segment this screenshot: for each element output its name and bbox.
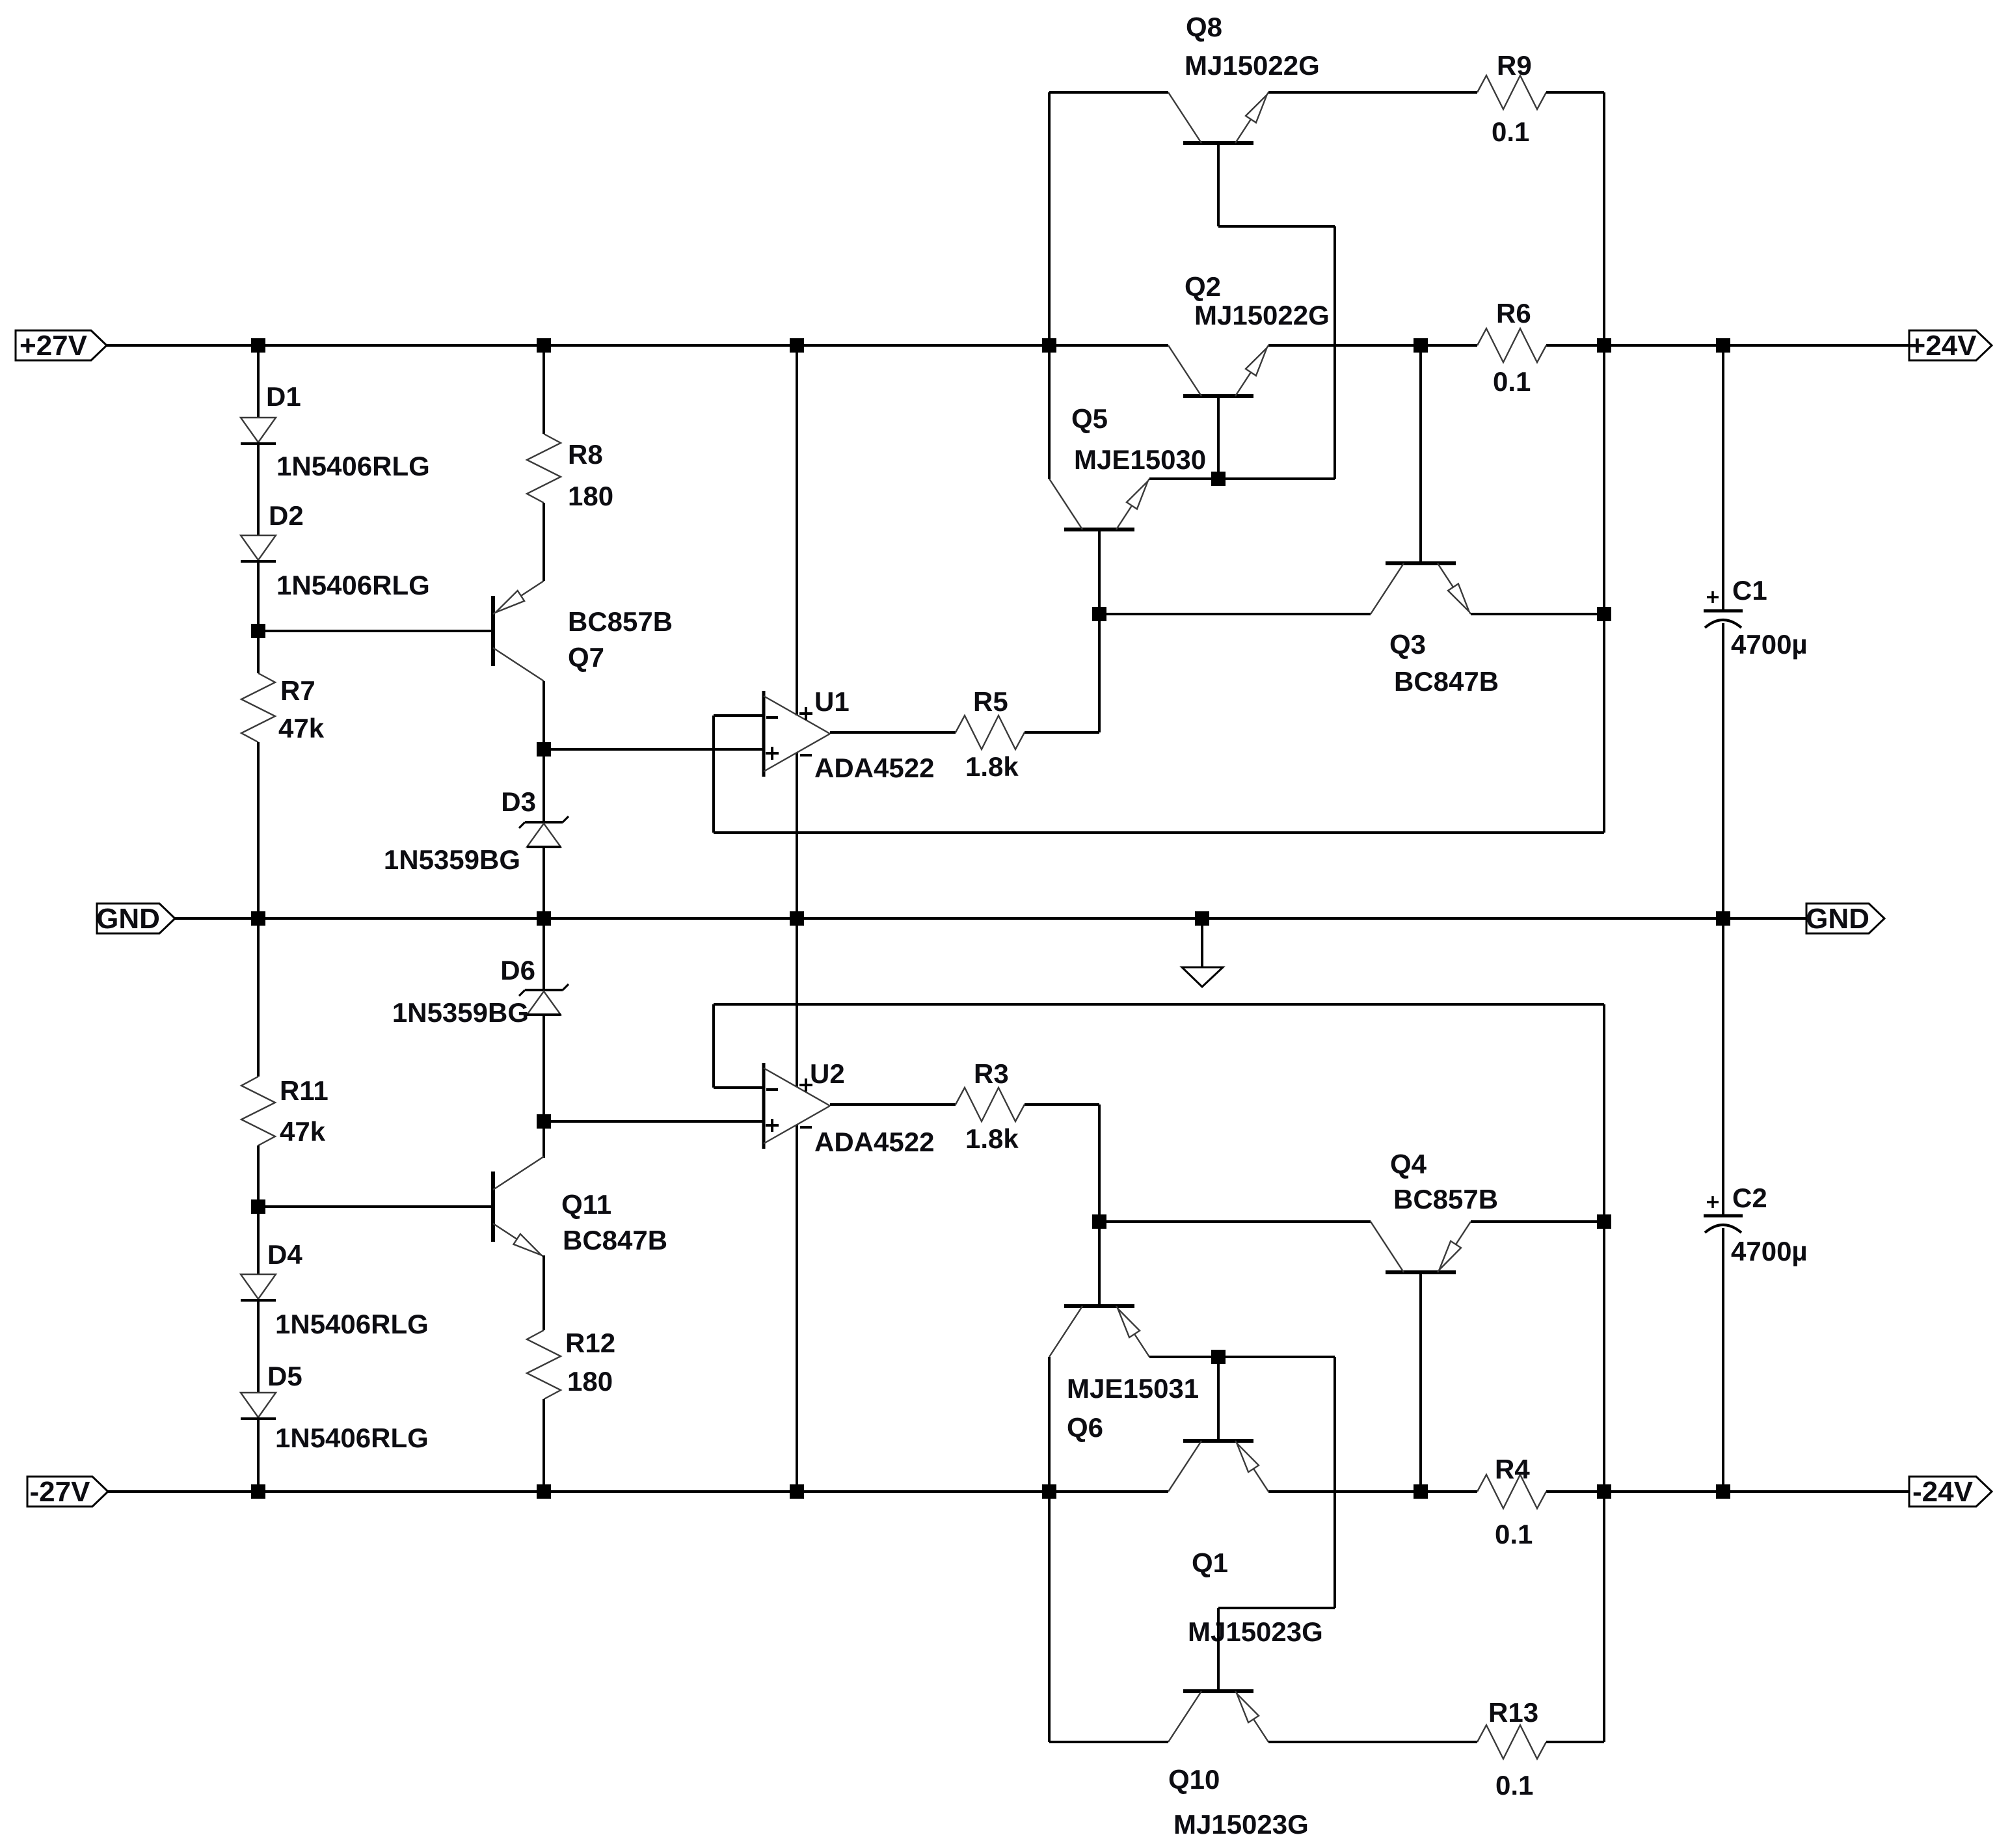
value C2 4700u [1731,1236,1808,1266]
node junction Q4 emitter/right column [1597,1214,1611,1229]
ground symbol [1182,967,1223,987]
label D2 [269,500,304,531]
port +27V [16,330,107,362]
svg-text:C1: C1 [1732,575,1767,606]
svg-text:1N5406RLG: 1N5406RLG [276,451,430,481]
node junction -27V/D5 [251,1484,265,1499]
svg-text:1N5406RLG: 1N5406RLG [275,1423,429,1453]
svg-text:47k: 47k [280,1116,326,1147]
value Q4 BC857B [1393,1184,1498,1214]
node junction D2/R7/Q7 base [251,624,265,638]
label Q5 [1071,403,1108,434]
value C1 4700u [1731,629,1808,660]
port GND left [96,903,175,935]
label C2 [1732,1183,1767,1213]
label D1 [266,381,301,412]
value D1 1N5406RLG [276,451,430,481]
svg-text:R5: R5 [973,686,1008,717]
wire U1 - input stub [714,714,764,717]
node junction Q2 base [1211,472,1226,486]
value D4 1N5406RLG [275,1309,429,1339]
transistor Q3 [1371,563,1471,614]
svg-text:D2: D2 [269,500,304,531]
svg-text:MJE15030: MJE15030 [1074,444,1206,475]
node junction Q7 collector/D3/U1+ [537,742,551,757]
node junction U1 out/Q5 base [1092,607,1106,621]
resistor R12 [527,1330,561,1399]
wire op-amp supply vertical middle [796,753,798,1087]
label D6 [500,955,535,985]
label R9 [1497,50,1532,81]
resistor R4 [1477,1475,1546,1508]
node junction GND/D3-D6 column [537,911,551,926]
node junction +27V/R8 [537,338,551,353]
value D6 1N5359BG [392,997,529,1028]
node junction +27V/op-amp supply [790,338,804,353]
svg-text:D1: D1 [266,381,301,412]
wire Q7 base [258,630,493,632]
svg-text:1N5406RLG: 1N5406RLG [276,570,430,600]
wire right column lower [1603,1004,1605,1742]
wire D3 to GND [543,847,545,918]
wire R3 to Q6 base corner [1025,1105,1099,1222]
wire Q5 collector column [1048,92,1051,479]
svg-text:-24V: -24V [1912,1476,1974,1508]
resistor R5 [956,716,1025,749]
wire Q10 base jog [1218,1357,1335,1608]
svg-text:ADA4522: ADA4522 [814,753,934,783]
wire +24V rail segment (R6 to +24V) [1546,344,1909,347]
wire Q11 base [258,1205,493,1208]
node junction Q3 emitter/right column [1597,607,1611,621]
resistor R8 [527,434,561,503]
node junction -27V/op-amp supply [790,1484,804,1499]
value Q2 MJ15022G [1194,300,1330,330]
transistor Q1 [1168,1441,1268,1492]
wire Q10 emitter to R13 [1268,1741,1477,1743]
wire R13 to right column [1546,1741,1604,1743]
wire Q3 base [1419,345,1422,563]
value Q11 BC847B [563,1225,667,1255]
wire GND-R11 [257,918,260,1077]
wire -24V rail segment (Q1 emitter to R4) [1268,1490,1477,1493]
svg-text:BC857B: BC857B [568,606,673,637]
transistor Q6 [1049,1306,1149,1357]
label R13 [1488,1697,1538,1728]
wire Q8 base stub [1217,143,1220,226]
label R6 [1496,298,1531,328]
svg-text:0.1: 0.1 [1495,1770,1533,1801]
svg-text:1.8k: 1.8k [965,1123,1019,1154]
wire U2 feedback horizontal [714,1003,1604,1006]
wire Q8 base jog [1218,226,1335,479]
value R9 0.1 [1492,116,1529,147]
node junction R11/D4/Q11 base [251,1199,265,1214]
svg-text:R9: R9 [1497,50,1532,81]
node junction +24V/Q3 base [1414,338,1428,353]
svg-text:D4: D4 [267,1239,302,1270]
label Q3 [1389,629,1426,660]
wire Q5 emitter to Q2 base line [1149,477,1335,480]
label D5 [267,1361,302,1391]
wire C1 top [1722,345,1724,611]
wire -27V rail left segment [107,1490,1168,1493]
op-amp U2 [764,1063,830,1149]
svg-text:GND: GND [1806,903,1869,935]
label U2 [810,1058,845,1089]
label R12 [565,1328,615,1358]
wire U1 output [830,731,956,734]
svg-text:Q3: Q3 [1389,629,1426,660]
wire U2 output [830,1103,956,1106]
svg-text:MJ15023G: MJ15023G [1188,1616,1323,1647]
wire Q10 base stub [1217,1608,1220,1691]
value R11 47k [280,1116,326,1147]
wire R8 to Q7 emitter [543,503,545,581]
wire +27V to R8 [543,345,545,434]
wire R12 to -27V [543,1399,545,1492]
wire R9 to right column [1546,91,1604,94]
wire C2 bottom [1722,1228,1724,1492]
svg-text:Q7: Q7 [568,642,604,673]
wire op-amp supply vertical upper [796,345,798,716]
port +24V [1909,330,1992,362]
wire Q4 base [1419,1272,1422,1492]
value D3 1N5359BG [384,844,520,875]
wire GND to D6 [543,918,545,990]
svg-text:C2: C2 [1732,1183,1767,1213]
wire U2 - input stub [714,1086,764,1089]
label Q10 [1168,1764,1220,1795]
value Q3 BC847B [1394,666,1499,697]
svg-text:0.1: 0.1 [1495,1519,1533,1549]
label Q1 [1192,1547,1228,1578]
capacitor C1 [1704,591,1743,628]
value Q10 MJ15023G [1173,1809,1309,1840]
wire U1 feedback horizontal [714,831,1604,834]
value D2 1N5406RLG [276,570,430,600]
value U2 ADA4522 [814,1127,934,1157]
svg-text:R12: R12 [565,1328,615,1358]
svg-text:MJ15023G: MJ15023G [1173,1809,1309,1840]
transistor Q5 [1049,479,1149,529]
value R12 180 [567,1366,613,1397]
value D5 1N5406RLG [275,1423,429,1453]
node junction GND/op-amp supply [790,911,804,926]
svg-text:R7: R7 [280,675,315,706]
capacitor C2 [1704,1196,1743,1233]
svg-text:1N5359BG: 1N5359BG [392,997,529,1028]
svg-text:MJ15022G: MJ15022G [1194,300,1330,330]
diode D1 [241,418,276,444]
transistor Q11 [493,1157,544,1257]
svg-text:U2: U2 [810,1058,845,1089]
svg-text:GND: GND [96,903,160,935]
node junction GND/ground symbol [1195,911,1209,926]
label U1 [814,686,850,717]
resistor R11 [241,1077,275,1145]
node junction -27V/Q6 collector column [1042,1484,1056,1499]
node junction D6/Q11 collector/U2+ [537,1114,551,1129]
svg-text:R13: R13 [1488,1697,1538,1728]
svg-text:+24V: +24V [1909,330,1977,362]
wire Q3 emitter line [1471,613,1604,615]
svg-text:1N5359BG: 1N5359BG [384,844,520,875]
label Q8 [1186,12,1222,42]
value Q7 BC857B [568,606,673,637]
wire U2 feedback vertical [712,1004,715,1088]
value Q6 MJE15031 [1067,1373,1199,1404]
node junction U2 out/Q6 base [1092,1214,1106,1229]
diode D4 [241,1274,276,1300]
wire Q2 base [1217,396,1220,479]
svg-text:Q4: Q4 [1390,1149,1427,1179]
value Q1 MJ15023G [1188,1616,1323,1647]
label R7 [280,675,315,706]
svg-text:BC847B: BC847B [563,1225,667,1255]
wire +27V rail left segment [107,344,1168,347]
wire Q1 base [1217,1357,1220,1441]
node junction -24V/C2 [1716,1484,1730,1499]
transistor Q8 [1168,92,1268,143]
wire D6 to U2+ node [543,1015,545,1158]
node junction -27V/R12 [537,1484,551,1499]
svg-text:D3: D3 [501,786,536,817]
wire R7-GND [257,742,260,918]
zener diode D6 [519,984,569,1015]
wire Q10 collector line [1049,1741,1168,1743]
wire D5 to -27V rail [257,1419,260,1492]
wire D1 anode [257,345,260,418]
node junction +24V/right column [1597,338,1611,353]
label Q11 [561,1189,611,1220]
svg-text:Q11: Q11 [561,1189,611,1220]
wire -24V rail segment (R4 to -24V) [1546,1490,1909,1493]
port GND right [1806,903,1884,935]
label R4 [1495,1454,1530,1484]
svg-text:R11: R11 [280,1075,328,1106]
resistor R7 [241,673,275,742]
transistor Q10 [1168,1691,1268,1742]
label Q7 [568,642,604,673]
transistor Q7 [493,581,544,681]
label D4 [267,1239,302,1270]
wire U1 feedback vertical [712,716,715,833]
wire Q5 base line to Q3 [1099,613,1371,615]
svg-text:U1: U1 [814,686,850,717]
svg-text:4700µ: 4700µ [1731,1236,1808,1266]
svg-text:D6: D6 [500,955,535,985]
value R13 0.1 [1495,1770,1533,1801]
resistor R9 [1477,75,1546,109]
wire right column upper [1603,92,1605,833]
wire Q5 base [1098,529,1101,614]
svg-text:0.1: 0.1 [1492,116,1529,147]
wire D4-D5 [257,1300,260,1393]
label R5 [973,686,1008,717]
svg-text:180: 180 [568,481,613,511]
svg-text:MJ15022G: MJ15022G [1185,50,1320,81]
wire op-amp supply vertical lower [796,1125,798,1492]
svg-text:Q1: Q1 [1192,1547,1228,1578]
svg-text:+27V: +27V [20,330,88,362]
label R8 [568,439,603,470]
label Q2 [1185,271,1221,302]
resistor R6 [1477,328,1546,362]
wire C2 top [1722,918,1724,1216]
label R3 [974,1058,1009,1089]
svg-text:Q5: Q5 [1071,403,1108,434]
value Q5 MJE15030 [1074,444,1206,475]
wire Q6 base [1098,1222,1101,1306]
resistor R13 [1477,1725,1546,1759]
svg-text:Q2: Q2 [1185,271,1221,302]
svg-text:BC857B: BC857B [1393,1184,1498,1214]
node junction Q1 base [1211,1350,1226,1364]
wire Q4 emitter line [1471,1220,1604,1223]
zener diode D3 [519,816,569,847]
svg-text:-27V: -27V [30,1476,91,1508]
wire D2-R7 node [257,561,260,673]
wire Q8 emitter to R9 [1268,91,1477,94]
wire Q6 collector column [1048,1357,1051,1742]
svg-text:D5: D5 [267,1361,302,1391]
wire Q6 emitter to Q1 base line [1149,1356,1335,1358]
svg-text:R4: R4 [1495,1454,1530,1484]
wire Q8 collector line [1049,91,1168,94]
value R3 1.8k [965,1123,1019,1154]
transistor Q2 [1168,345,1268,396]
wire R11-D4 node [257,1145,260,1274]
label Q6 [1067,1412,1103,1443]
port -24V [1909,1476,1992,1508]
wire ground stub [1201,918,1203,967]
label Q4 [1390,1149,1427,1179]
node junction -24V/Q4 base [1414,1484,1428,1499]
label D3 [501,786,536,817]
svg-text:47k: 47k [278,713,325,743]
wire R5 to Q5 base corner [1025,614,1099,732]
svg-text:R8: R8 [568,439,603,470]
node junction +27V/Q5 collector column [1042,338,1056,353]
wire Q7 collector to D3 node [543,681,545,822]
svg-text:ADA4522: ADA4522 [814,1127,934,1157]
wire Q6 base line to Q4 [1099,1220,1371,1223]
transistor Q4 [1371,1222,1471,1272]
value Q8 MJ15022G [1185,50,1320,81]
svg-text:4700µ: 4700µ [1731,629,1808,660]
op-amp U1 [764,691,830,777]
label R11 [280,1075,328,1106]
svg-text:R3: R3 [974,1058,1009,1089]
value R8 180 [568,481,613,511]
wire Q11 emitter to R12 [543,1255,545,1330]
port -27V [27,1476,108,1508]
value U1 ADA4522 [814,753,934,783]
wire +24V rail segment (Q2 emitter to R6) [1268,344,1477,347]
svg-text:MJE15031: MJE15031 [1067,1373,1199,1404]
wire GND rail [174,917,1806,920]
svg-text:180: 180 [567,1366,613,1397]
value R4 0.1 [1495,1519,1533,1549]
svg-text:BC847B: BC847B [1394,666,1499,697]
node junction -24V/right column [1597,1484,1611,1499]
wire U1 + input [544,748,764,751]
value R5 1.8k [965,751,1019,782]
svg-text:Q6: Q6 [1067,1412,1103,1443]
node junction +24V/C1 [1716,338,1730,353]
wire C1 bottom [1722,623,1724,918]
resistor R3 [956,1088,1025,1121]
node junction +27V/D1 [251,338,265,353]
svg-text:1.8k: 1.8k [965,751,1019,782]
wire D1-D2 [257,444,260,535]
label C1 [1732,575,1767,606]
diode D2 [241,535,276,561]
diode D5 [241,1393,276,1419]
svg-text:1N5406RLG: 1N5406RLG [275,1309,429,1339]
node junction GND/left column [251,911,265,926]
node junction GND/C1-C2 column [1716,911,1730,926]
wire U2 + input [544,1120,764,1123]
value R6 0.1 [1493,366,1531,397]
svg-text:Q10: Q10 [1168,1764,1220,1795]
svg-text:Q8: Q8 [1186,12,1222,42]
svg-text:R6: R6 [1496,298,1531,328]
svg-text:0.1: 0.1 [1493,366,1531,397]
value R7 47k [278,713,325,743]
